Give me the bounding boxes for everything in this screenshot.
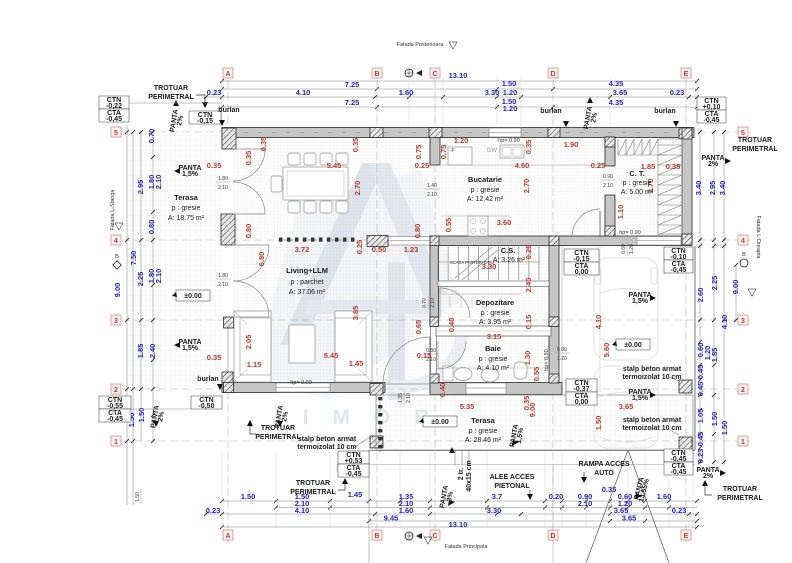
svg-text:RAMPA ACCES: RAMPA ACCES: [578, 461, 629, 468]
svg-text:C: C: [432, 533, 437, 540]
svg-text:stalp beton armat: stalp beton armat: [623, 366, 682, 373]
svg-text:TROTUAR: TROTUAR: [154, 85, 188, 92]
svg-text:2.60: 2.60: [696, 288, 705, 303]
column chain vertical: [378, 396, 382, 452]
svg-text:PIETONAL: PIETONAL: [494, 483, 530, 490]
axis bubbles numbers right: [738, 127, 748, 137]
svg-text:1,5%: 1,5%: [182, 345, 199, 352]
svg-text:±0.00: ±0.00: [624, 342, 642, 349]
svg-text:A: 3.26 m²: A: 3.26 m²: [493, 257, 526, 264]
svg-text:AUTO: AUTO: [594, 470, 614, 477]
svg-text:1.05: 1.05: [696, 409, 705, 424]
svg-text:B: B: [742, 252, 746, 258]
svg-text:13.10: 13.10: [449, 520, 468, 529]
svg-text:2.95: 2.95: [708, 181, 717, 196]
garage east edge line: [694, 246, 696, 450]
svg-text:Terasa: Terasa: [174, 193, 198, 202]
svg-text:3.65: 3.65: [622, 514, 637, 523]
svg-text:0.20: 0.20: [549, 492, 564, 501]
svg-text:burlan: burlan: [218, 107, 239, 114]
sofa left: [234, 311, 271, 382]
svg-text:0.35: 0.35: [666, 162, 681, 171]
svg-text:0.90: 0.90: [603, 174, 613, 180]
svg-text:2.40: 2.40: [148, 344, 157, 359]
svg-text:stalp beton armat: stalp beton armat: [298, 436, 357, 443]
svg-text:0.75: 0.75: [439, 145, 448, 160]
svg-text:Fatada Posterioara: Fatada Posterioara: [397, 42, 445, 48]
svg-text:1.60: 1.60: [399, 506, 414, 515]
depozitare bottom wall: [436, 326, 551, 336]
svg-text:9.00: 9.00: [528, 403, 537, 418]
svg-text:burlan: burlan: [197, 376, 218, 383]
kitchen right wall upper: [605, 137, 615, 166]
svg-text:Fatada L-Dreapta: Fatada L-Dreapta: [755, 215, 761, 259]
cs depozitare left wall: [430, 245, 439, 326]
svg-text:p : gresie: p : gresie: [481, 310, 510, 317]
svg-text:2.05: 2.05: [244, 335, 253, 350]
walkway band: [369, 450, 695, 452]
hatched piers: [222, 128, 236, 149]
baie bottom wall: [430, 383, 562, 395]
stairs C.T. right run: [658, 139, 682, 235]
svg-text:2 tr.: 2 tr.: [458, 468, 465, 481]
marker diamond left: [113, 261, 121, 269]
top dimension lines: [222, 80, 697, 82]
terasa double door 1: [233, 149, 265, 181]
svg-text:2%: 2%: [708, 161, 719, 168]
svg-text:PERIMETRAL: PERIMETRAL: [148, 94, 194, 101]
svg-text:0.25: 0.25: [355, 240, 364, 255]
svg-text:1: 1: [114, 439, 118, 446]
svg-text:p : gresie: p : gresie: [479, 356, 508, 363]
svg-text:B: B: [115, 254, 119, 260]
svg-text:0.75: 0.75: [414, 145, 423, 160]
svg-text:2.10: 2.10: [218, 185, 228, 191]
svg-text:4: 4: [114, 238, 118, 245]
svg-text:2: 2: [741, 387, 745, 394]
svg-text:D: D: [550, 533, 555, 540]
svg-text:1.85: 1.85: [136, 344, 145, 359]
svg-text:A: 3.95 m²: A: 3.95 m²: [479, 319, 512, 326]
svg-text:3.72: 3.72: [295, 245, 310, 254]
svg-text:2.25: 2.25: [710, 276, 719, 291]
svg-text:3.65: 3.65: [613, 88, 628, 97]
svg-text:1.20: 1.20: [557, 356, 567, 362]
svg-text:±0.00: ±0.00: [184, 293, 202, 300]
svg-text:1.45: 1.45: [348, 490, 363, 499]
svg-text:hp= 0.90: hp= 0.90: [619, 230, 641, 236]
svg-text:-0,45: -0,45: [107, 416, 123, 423]
terasa west edge: [129, 133, 131, 390]
left dimension lines: [126, 125, 128, 505]
svg-text:p : parchet: p : parchet: [290, 279, 323, 286]
svg-text:3.60: 3.60: [497, 218, 512, 227]
svg-text:1.50: 1.50: [710, 412, 719, 427]
terasa left floor: [128, 133, 222, 390]
svg-text:4.35: 4.35: [609, 79, 624, 88]
svg-text:0.80: 0.80: [147, 220, 156, 235]
svg-text:-0,50: -0,50: [199, 403, 215, 410]
svg-text:E: E: [684, 533, 689, 540]
svg-text:DW: DW: [487, 148, 497, 154]
svg-text:1.50: 1.50: [137, 408, 146, 423]
svg-text:PERIMETRAL: PERIMETRAL: [717, 495, 763, 502]
cs depozitare partition: [438, 281, 549, 287]
svg-text:-0,45: -0,45: [671, 469, 687, 476]
svg-text:Fatada L-Stanga: Fatada L-Stanga: [110, 189, 116, 231]
svg-text:1,5%: 1,5%: [632, 395, 649, 402]
svg-text:A: 18.75 m²: A: 18.75 m²: [168, 215, 205, 222]
left wall door openings: [224, 149, 235, 214]
svg-text:2%: 2%: [703, 473, 714, 480]
watermark logo: [250, 163, 462, 400]
svg-text:0.80: 0.80: [244, 224, 253, 239]
dining chairs: [288, 153, 300, 165]
svg-text:3.15: 3.15: [487, 332, 502, 341]
svg-text:3.85: 3.85: [351, 306, 360, 321]
svg-text:burlan: burlan: [540, 108, 561, 115]
svg-text:3.30: 3.30: [487, 506, 502, 515]
svg-text:0.23: 0.23: [207, 88, 222, 97]
svg-text:A: 5.00 m²: A: 5.00 m²: [621, 189, 654, 196]
svg-text:A: 37.06 m²: A: 37.06 m²: [289, 289, 326, 296]
marker circle B right: [740, 259, 748, 267]
ctn box +0,53: [338, 451, 369, 464]
svg-text:ALEE ACCES: ALEE ACCES: [490, 474, 535, 481]
living bottom wall: [222, 383, 385, 393]
svg-text:D: D: [550, 71, 555, 78]
svg-text:1.85: 1.85: [710, 348, 719, 363]
svg-text:0.35: 0.35: [244, 151, 253, 166]
svg-text:1: 1: [741, 439, 745, 446]
svg-text:0.45: 0.45: [696, 382, 705, 397]
svg-text:termoizolat 10 cm: termoizolat 10 cm: [622, 374, 681, 381]
ct right wall: [682, 137, 692, 236]
baie sink2: [481, 368, 499, 382]
svg-text:2.10: 2.10: [427, 192, 437, 198]
svg-text:3.40: 3.40: [694, 181, 703, 196]
svg-text:1.50: 1.50: [594, 416, 603, 431]
svg-text:stalp beton armat: stalp beton armat: [623, 417, 682, 424]
svg-text:B: B: [374, 533, 379, 540]
svg-text:0.25: 0.25: [591, 161, 606, 170]
baie counter line: [440, 367, 549, 369]
svg-text:1.20: 1.20: [503, 104, 518, 113]
svg-text:TROTUAR: TROTUAR: [723, 486, 757, 493]
svg-text:0.35: 0.35: [524, 140, 533, 155]
svg-text:9.00: 9.00: [731, 280, 740, 295]
svg-text:Fatada Principala: Fatada Principala: [445, 544, 489, 550]
svg-text:hp= 0.90: hp= 0.90: [498, 138, 520, 144]
svg-text:C. T.: C. T.: [629, 169, 644, 178]
fridge: [448, 147, 472, 165]
svg-text:0.35: 0.35: [259, 137, 268, 152]
svg-text:3.7: 3.7: [492, 492, 502, 501]
svg-text:2.10: 2.10: [154, 269, 163, 284]
kitchen floor: [432, 137, 606, 236]
svg-text:SCARA PARTER+ETAJ: SCARA PARTER+ETAJ: [450, 260, 494, 265]
svg-text:0.23: 0.23: [672, 506, 687, 515]
misc symbols: section markers: [405, 69, 413, 77]
kitchen counter top: [441, 164, 606, 166]
svg-text:2.10: 2.10: [578, 499, 593, 508]
svg-text:0.60: 0.60: [621, 244, 627, 254]
axis bubbles numbers left: [111, 127, 121, 137]
svg-text:2: 2: [114, 387, 118, 394]
svg-text:0.40: 0.40: [438, 383, 447, 398]
svg-text:0.35: 0.35: [207, 161, 222, 170]
svg-text:0.45: 0.45: [696, 432, 705, 447]
column chain horizontal: [278, 238, 354, 242]
baie door: [438, 341, 466, 369]
top exterior wall: [222, 128, 694, 138]
car 1: [594, 258, 658, 360]
svg-text:2.10: 2.10: [430, 298, 436, 308]
extension lines bottom: [221, 452, 223, 528]
svg-text:1.50: 1.50: [502, 79, 517, 88]
svg-text:0.55: 0.55: [532, 367, 541, 382]
svg-text:0.80: 0.80: [413, 224, 422, 239]
extension lines top: [221, 78, 223, 126]
ctn box bottom-right: [664, 449, 693, 462]
svg-text:0,00: 0,00: [575, 269, 589, 276]
svg-text:Baie: Baie: [485, 344, 501, 353]
svg-text:3: 3: [114, 318, 118, 325]
svg-text:1,5%: 1,5%: [632, 298, 649, 305]
svg-text:PERIMETRAL: PERIMETRAL: [255, 434, 301, 441]
svg-text:0.80: 0.80: [557, 347, 567, 353]
svg-text:0.23: 0.23: [670, 88, 685, 97]
living floor: [233, 137, 432, 383]
svg-text:4.10: 4.10: [296, 88, 311, 97]
coffee table: [289, 325, 315, 363]
svg-text:p : gresie: p : gresie: [469, 428, 498, 435]
svg-text:0.15: 0.15: [524, 315, 533, 330]
svg-text:1.35: 1.35: [398, 393, 404, 403]
svg-text:-0,45: -0,45: [671, 267, 687, 274]
svg-text:TROTUAR: TROTUAR: [738, 137, 772, 144]
cs depozitare baie right wall: [549, 245, 559, 383]
stove: [468, 216, 488, 236]
svg-text:1,5%: 1,5%: [182, 171, 199, 178]
svg-text:-0,45: -0,45: [704, 117, 720, 124]
svg-text:0.70: 0.70: [422, 298, 428, 308]
kitchen north window: [489, 128, 521, 137]
entry steps 2tr: [454, 450, 456, 465]
bottom terasa outline: [376, 395, 693, 450]
svg-text:Depozitare: Depozitare: [476, 298, 514, 307]
svg-text:4.10: 4.10: [295, 506, 310, 515]
grid axes horizontal 1-5: [110, 131, 750, 133]
small triangles left/right: [115, 223, 123, 230]
svg-text:PERIMETRAL: PERIMETRAL: [732, 146, 778, 153]
hall door arc: [572, 209, 600, 237]
svg-text:C: C: [432, 71, 437, 78]
ramp V lines: [586, 450, 628, 563]
entrance door: [383, 337, 430, 384]
axis bubbles letters top: [223, 68, 233, 78]
ctn box top-right: [697, 97, 726, 110]
kitchen ct bottom wall: [430, 236, 692, 246]
ctn box left-mid: [99, 396, 131, 409]
svg-text:40x15 cm: 40x15 cm: [466, 460, 473, 492]
svg-text:2.10: 2.10: [154, 175, 163, 190]
svg-text:hp= 0.90: hp= 0.90: [544, 349, 550, 371]
svg-text:0.80: 0.80: [426, 348, 436, 354]
sink: [500, 145, 524, 158]
stairs C.S.: [438, 245, 549, 280]
baie wc: [514, 362, 527, 379]
svg-text:0.35: 0.35: [207, 353, 222, 362]
ctn leader lines: [129, 102, 222, 104]
svg-text:A: 4.10 m²: A: 4.10 m²: [477, 365, 510, 372]
terasa double door 2: [233, 245, 269, 281]
cs depozitare baie floors: [438, 244, 549, 326]
baie sink1: [454, 368, 472, 381]
ct floor: [614, 139, 682, 234]
svg-text:2.70: 2.70: [522, 179, 531, 194]
svg-text:2.10: 2.10: [218, 282, 228, 288]
sofa right: [335, 311, 372, 382]
svg-text:termoizolat 10 cm: termoizolat 10 cm: [622, 425, 681, 432]
hall door leaf: [599, 211, 601, 237]
svg-text:1.20: 1.20: [454, 136, 469, 145]
living-kitchen wall stub: [430, 137, 440, 165]
svg-text:4.35: 4.35: [609, 98, 624, 107]
svg-text:2.25: 2.25: [136, 272, 145, 287]
svg-text:-0,45: -0,45: [346, 471, 362, 478]
svg-text:0.50: 0.50: [372, 245, 387, 254]
depozitare shelf: [440, 293, 520, 295]
svg-text:0.40: 0.40: [447, 318, 456, 333]
svg-text:0.70: 0.70: [147, 129, 156, 144]
svg-text:1.60: 1.60: [657, 492, 672, 501]
svg-text:5.35: 5.35: [460, 402, 475, 411]
svg-text:0.55: 0.55: [444, 218, 453, 233]
svg-text:A: A: [225, 533, 230, 540]
svg-text:1.90: 1.90: [564, 140, 579, 149]
svg-text:0.23: 0.23: [696, 449, 705, 464]
svg-text:7.25: 7.25: [345, 80, 360, 89]
svg-text:1.45: 1.45: [349, 359, 364, 368]
ctn box right-mid: [664, 247, 693, 260]
svg-text:1.60: 1.60: [399, 88, 414, 97]
kitchen right wall lower: [605, 195, 615, 236]
svg-text:5.45: 5.45: [324, 351, 339, 360]
svg-text:1.50: 1.50: [135, 492, 141, 502]
svg-text:1.20: 1.20: [629, 244, 635, 254]
svg-text:0.23: 0.23: [206, 506, 221, 515]
svg-text:0,00: 0,00: [575, 399, 589, 406]
svg-text:2.40: 2.40: [524, 278, 533, 293]
ctn box entrance: [566, 379, 597, 392]
depozitare door: [440, 288, 470, 318]
svg-text:2.70: 2.70: [353, 181, 362, 196]
ctn box -0,50: [191, 396, 222, 409]
svg-text:6.80: 6.80: [257, 252, 266, 267]
svg-text:7.50: 7.50: [129, 251, 138, 266]
living south window: [276, 383, 330, 392]
baie shower: [443, 366, 453, 381]
svg-text:9.45: 9.45: [384, 514, 399, 523]
ctn box mid (hall): [564, 249, 599, 262]
svg-text:A: 12.42 m²: A: 12.42 m²: [467, 196, 504, 203]
svg-text:E: E: [684, 71, 689, 78]
svg-text:p : gresie: p : gresie: [172, 205, 201, 212]
svg-text:A: A: [225, 71, 230, 78]
svg-text:0.25: 0.25: [415, 161, 430, 170]
svg-text:0.25: 0.25: [524, 245, 533, 260]
svg-text:1.40: 1.40: [427, 183, 437, 189]
svg-text:4.10: 4.10: [594, 315, 603, 330]
svg-text:0.45: 0.45: [696, 365, 705, 380]
svg-text:1.15: 1.15: [247, 360, 262, 369]
baie south window: [466, 383, 506, 394]
svg-text:1.10: 1.10: [616, 205, 625, 220]
svg-text:1.20: 1.20: [503, 88, 518, 97]
left exterior wall: [224, 137, 233, 383]
svg-text:3.30: 3.30: [485, 88, 500, 97]
svg-text:2.10: 2.10: [406, 393, 412, 403]
svg-text:4.60: 4.60: [515, 161, 530, 170]
svg-text:0.35: 0.35: [351, 138, 360, 153]
svg-text:-0,15: -0,15: [197, 118, 213, 125]
svg-text:1.50: 1.50: [241, 492, 256, 501]
svg-text:A: 28.46 m²: A: 28.46 m²: [465, 437, 502, 444]
living-cs low wall/window band: [388, 237, 430, 246]
svg-text:3.65: 3.65: [619, 402, 634, 411]
svg-text:±0.00: ±0.00: [431, 419, 449, 426]
svg-text:hp= 0.00: hp= 0.00: [290, 380, 312, 386]
right dimension lines: [699, 128, 701, 465]
svg-text:4: 4: [741, 238, 745, 245]
svg-text:p : gresie: p : gresie: [471, 187, 500, 194]
svg-text:burlan: burlan: [654, 108, 675, 115]
svg-text:1.23: 1.23: [404, 245, 419, 254]
svg-text:1.50: 1.50: [720, 421, 729, 436]
svg-text:2.95: 2.95: [136, 180, 145, 195]
svg-text:13.10: 13.10: [449, 71, 468, 80]
grid axes vertical A-E: [227, 68, 229, 543]
svg-text:5: 5: [114, 130, 118, 137]
terasa bottom floor: [376, 395, 693, 450]
svg-text:TROTUAR: TROTUAR: [296, 480, 330, 487]
ct south window: [637, 237, 681, 246]
bottom dimension lines: [222, 500, 697, 502]
svg-text:5: 5: [741, 130, 745, 137]
svg-text:-0,45: -0,45: [106, 116, 122, 123]
kitchen counter bottom: [441, 215, 510, 217]
svg-text:5.60: 5.60: [602, 343, 611, 358]
svg-text:1.80: 1.80: [218, 273, 228, 279]
svg-text:2.10: 2.10: [603, 183, 613, 189]
svg-text:9.00: 9.00: [113, 283, 122, 298]
ctn box -0,15 top: [189, 111, 221, 124]
svg-text:4.10: 4.10: [720, 315, 729, 330]
svg-text:B: B: [374, 71, 379, 78]
svg-text:7.25: 7.25: [345, 98, 360, 107]
svg-text:PERIMETRAL: PERIMETRAL: [290, 489, 336, 496]
svg-text:2.10: 2.10: [426, 357, 436, 363]
svg-text:termoizolat 10 cm: termoizolat 10 cm: [297, 444, 356, 451]
svg-text:0.65: 0.65: [414, 320, 423, 335]
svg-text:C.S.: C.S.: [501, 246, 516, 255]
car 2: [594, 366, 658, 448]
svg-text:p : gresie: p : gresie: [623, 180, 652, 187]
svg-text:Living+LLM: Living+LLM: [286, 266, 328, 275]
ctn box top-left: [99, 96, 129, 109]
stairs C.T. top run: [618, 139, 666, 155]
